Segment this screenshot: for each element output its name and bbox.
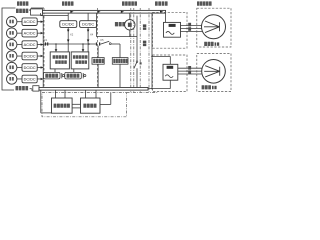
header label: generation module bbox=[17, 1, 28, 5]
svg-text:DC/DC: DC/DC bbox=[24, 66, 36, 70]
wire B3 to converter bbox=[17, 78, 22, 80]
top DC busbar bbox=[43, 10, 166, 13]
wire DC/DC 2 down with arrows bbox=[87, 27, 90, 52]
bottom busbar label box bbox=[33, 86, 39, 91]
source B1 (circle symbol) bbox=[7, 51, 17, 61]
link wires EMS-monitor bbox=[72, 104, 80, 108]
busbar flow arrow 3 bbox=[121, 11, 124, 13]
wire G1 to converter bbox=[17, 21, 22, 23]
converter DC/DC for B1 bbox=[22, 52, 37, 60]
converter AC/DC for G3 bbox=[22, 41, 37, 49]
frame inline label top-left bbox=[16, 9, 31, 13]
through wire into load box 2 bbox=[119, 44, 121, 88]
svg-text:AC/DC: AC/DC bbox=[24, 43, 36, 47]
battery unit label box 2 bbox=[65, 72, 82, 79]
source G1 (circle symbol) bbox=[7, 17, 17, 27]
motor unit 1 dashed enclosure bbox=[197, 8, 231, 47]
DC/DC converter K2 branch box bbox=[60, 21, 77, 28]
shore connection wire with switch bbox=[134, 37, 142, 88]
wire converter B1 output bbox=[37, 55, 43, 58]
drop wire to DC/DC 2 bbox=[87, 13, 89, 21]
wire monitor box up b bbox=[95, 90, 97, 98]
wire busbar to EMS left bbox=[41, 90, 52, 113]
header label: DC distribution module bbox=[122, 1, 137, 5]
contactor K1 bbox=[44, 39, 48, 45]
motor unit 2 dashed enclosure bbox=[197, 54, 231, 92]
svg-text:DC/DC: DC/DC bbox=[24, 77, 36, 81]
header label: inverter module bbox=[155, 1, 168, 5]
boundary line 3-4 a bbox=[130, 8, 132, 92]
source B3 (circle symbol) bbox=[7, 74, 17, 84]
voltmeter branch right wire bbox=[136, 16, 138, 37]
wire monitor box up a bbox=[85, 90, 87, 98]
busbar end drop to inverter 1 bbox=[165, 13, 167, 22]
wire K5 to load box corner bbox=[111, 43, 120, 45]
load box 2 (dump resistor) bbox=[112, 58, 128, 65]
wire converter G3 output bbox=[37, 43, 43, 46]
bottom DC busbar bbox=[39, 88, 148, 91]
voltmeter label bbox=[115, 22, 126, 26]
through wire into load box 1 bbox=[97, 46, 99, 88]
load box 1 (service load) bbox=[92, 58, 104, 65]
boundary line 3-4 b bbox=[133, 8, 135, 92]
svg-text:AC/DC: AC/DC bbox=[24, 20, 36, 24]
left feed rail bbox=[151, 13, 153, 89]
inverter U1 (DC/AC) bbox=[164, 22, 181, 37]
boundary line 4 a bbox=[139, 8, 141, 92]
cable label unit 1 bbox=[188, 23, 191, 31]
wire converter B3 output bbox=[37, 78, 43, 81]
stub into battery box 1 bbox=[55, 43, 58, 52]
converter DC/DC for B2 bbox=[22, 64, 37, 72]
collector wire (left DC rail) bbox=[42, 16, 44, 88]
voltmeter V1 bbox=[125, 13, 135, 36]
monitoring dash extension bbox=[127, 92, 159, 94]
source G3 (circle symbol) bbox=[7, 39, 17, 49]
stub into battery box 2 bbox=[82, 43, 85, 52]
busbar flow arrow 1 bbox=[70, 11, 73, 13]
inverter unit 2 dashed enclosure bbox=[153, 55, 188, 92]
header label: propulsion module bbox=[197, 1, 212, 5]
busbar flow arrow 4 bbox=[160, 11, 163, 13]
wires EMS to busbar bbox=[56, 90, 66, 98]
battery pack box 1 bbox=[50, 52, 69, 69]
cable label unit 2 bbox=[188, 66, 191, 74]
monitoring box bbox=[81, 98, 101, 113]
inverter U2 (DC/AC) bbox=[163, 64, 178, 80]
wire converter G2 output bbox=[37, 32, 43, 35]
inverter 2 return wire bbox=[148, 80, 170, 89]
frame inline label bottom-left bbox=[16, 86, 32, 90]
boundary line 4 b bbox=[148, 8, 150, 92]
sensor tap 1 bbox=[62, 73, 65, 78]
converter AC/DC for G1 bbox=[22, 18, 37, 26]
DC/DC converter K4 branch box bbox=[80, 21, 97, 28]
header label: storage module bbox=[62, 1, 74, 5]
contactor label K4 bbox=[90, 34, 94, 37]
wire B2 to converter bbox=[17, 67, 22, 69]
propulsion motor M1 bbox=[202, 15, 226, 39]
contactor label K2 bbox=[70, 34, 74, 37]
drop wire to DC/DC 1 bbox=[67, 13, 69, 21]
battery unit label box 1 bbox=[44, 72, 61, 79]
svg-text:DC/DC: DC/DC bbox=[62, 23, 74, 27]
motor 2 label bbox=[202, 85, 217, 89]
section divider 2-3 bbox=[97, 8, 99, 90]
3-phase wires inverter 2 to motor 2 bbox=[178, 68, 203, 74]
wire converter B2 output bbox=[37, 66, 43, 69]
motor 1 label bbox=[204, 42, 219, 46]
3-phase wires inverter 1 to motor 1 bbox=[181, 26, 203, 32]
svg-text:DC/DC: DC/DC bbox=[82, 23, 94, 27]
legs battery to unit boxes bbox=[55, 69, 74, 73]
inverter unit 1 dashed enclosure bbox=[153, 12, 188, 48]
converter DC/DC for B3 bbox=[22, 75, 37, 83]
source G2 (circle symbol) bbox=[7, 28, 17, 38]
wire G2 to converter bbox=[17, 32, 22, 34]
propulsion motor M2 bbox=[202, 60, 226, 84]
busbar flow arrow 2 bbox=[97, 11, 100, 13]
sensor tap 2 bbox=[83, 73, 86, 78]
section divider 1-2 bbox=[0, 0, 1, 1]
svg-text:DC/DC: DC/DC bbox=[24, 54, 36, 58]
wire monitor box right bbox=[100, 93, 111, 105]
voltmeter branch left wire bbox=[96, 13, 98, 36]
feed elbow to inverter 2 bbox=[151, 56, 170, 65]
voltmeter branch bottom wire bbox=[97, 36, 138, 38]
busbar label box bbox=[31, 9, 43, 15]
svg-text:AC/DC: AC/DC bbox=[24, 32, 36, 36]
converter AC/DC for G2 bbox=[22, 29, 37, 37]
sub-bus wire under busbar bbox=[41, 13, 69, 16]
battery pack box 2 bbox=[71, 52, 89, 69]
wire DC/DC 1 down with arrows bbox=[67, 27, 70, 52]
switch K5 on DC link bbox=[88, 39, 111, 46]
monitoring dashed-dot enclosure bbox=[42, 93, 127, 117]
generation section boundary frame bbox=[2, 8, 44, 90]
wire B1 to converter bbox=[17, 55, 22, 57]
EMS box bbox=[52, 98, 73, 113]
wire converter G1 output bbox=[37, 20, 43, 23]
horizontal DC link wire bbox=[43, 43, 96, 45]
source B2 (circle symbol) bbox=[7, 62, 17, 72]
wire G3 to converter bbox=[17, 44, 22, 46]
vertical bus label text bbox=[143, 24, 146, 46]
